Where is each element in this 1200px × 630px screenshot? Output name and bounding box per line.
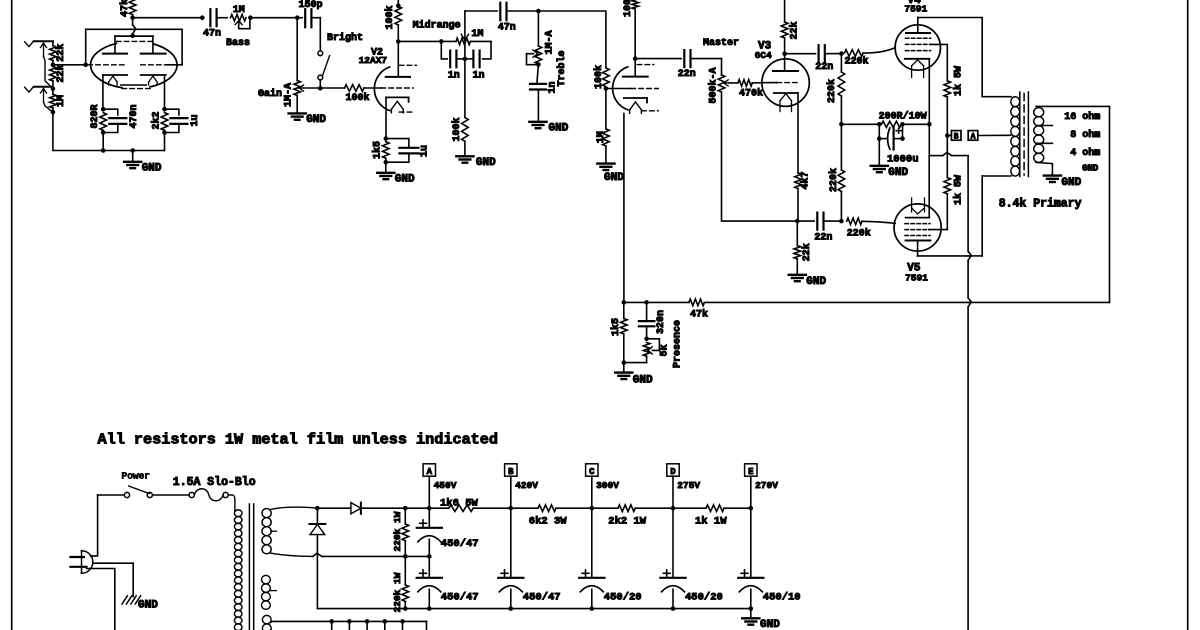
svg-text:Master: Master	[703, 38, 739, 49]
svg-text:47k: 47k	[119, 0, 131, 17]
capacitor 1u (V2)	[386, 139, 409, 148]
wire: supply line to power section	[967, 156, 969, 252]
tube V2b (driver)	[613, 67, 628, 110]
svg-text:22k: 22k	[55, 64, 67, 82]
pot 1M-A Treble	[537, 11, 539, 46]
svg-text:1k 5W: 1k 5W	[952, 66, 964, 96]
svg-text:47k: 47k	[690, 309, 708, 321]
resistor 22k (driver tail)	[796, 221, 798, 246]
svg-text:7591: 7591	[904, 4, 927, 15]
tube V1 grid dashes	[88, 64, 127, 66]
svg-text:220k: 220k	[847, 227, 871, 239]
diode D1 (HV rectifier)	[315, 506, 320, 511]
capacitor 47n (coupling)	[209, 9, 211, 26]
svg-text:22n: 22n	[814, 233, 832, 244]
left sheet border	[11, 0, 13, 630]
tube V2 cathode	[386, 96, 409, 98]
right sheet border	[1187, 0, 1189, 630]
capacitor 450/20	[591, 508, 593, 578]
svg-text:6k2 3W: 6k2 3W	[529, 515, 568, 527]
wire: feedback line	[624, 301, 689, 303]
svg-text:220k: 220k	[845, 56, 869, 68]
svg-text:47n: 47n	[498, 23, 516, 34]
tube V4 plate	[917, 18, 919, 34]
resistor 100k (driver plate, cut at top)	[632, 0, 639, 9]
svg-text:450/20: 450/20	[685, 592, 723, 604]
svg-text:22k: 22k	[789, 21, 801, 39]
resistor 4k7	[795, 173, 802, 189]
ground GND (V1 cathode)	[130, 148, 135, 153]
switch Bright	[319, 18, 321, 51]
svg-text:1k5: 1k5	[371, 141, 383, 159]
tube V5 grids	[905, 223, 930, 225]
input jack J2	[25, 87, 34, 92]
input jack J1	[25, 42, 34, 47]
svg-text:All resistors 1W metal film un: All resistors 1W metal film unless indic…	[98, 431, 499, 449]
svg-text:1M-A: 1M-A	[283, 83, 294, 107]
svg-text:1n: 1n	[473, 70, 485, 81]
svg-text:GND: GND	[142, 162, 162, 174]
node A box	[423, 464, 435, 476]
svg-text:270V: 270V	[755, 480, 778, 491]
node C box	[586, 464, 598, 476]
wire: V3 cathode lead	[797, 93, 799, 173]
resistor 22k (input lower)	[50, 66, 57, 81]
tube V4 envelope	[895, 25, 940, 70]
resistor 1k5 (V2 cathode)	[384, 136, 389, 141]
resistor 1k5 (presence leg)	[623, 302, 625, 318]
node D box	[667, 464, 679, 476]
resistor 820R	[101, 107, 106, 112]
resistor 100k (V2 grid stopper)	[320, 87, 344, 89]
svg-text:220k: 220k	[826, 79, 838, 103]
wire: V3 plate to 22n	[785, 53, 816, 55]
transformer PT core	[248, 504, 250, 630]
svg-text:100k: 100k	[384, 5, 396, 29]
svg-text:12AX7: 12AX7	[359, 55, 388, 66]
svg-text:A: A	[427, 467, 433, 477]
capacitor 450/20	[672, 508, 674, 578]
tube V2 plate	[397, 41, 399, 77]
svg-text:GND: GND	[633, 375, 653, 387]
wire: master pot bottom	[722, 92, 798, 221]
wire: HV top to rectifier	[271, 507, 318, 509]
svg-text:GND: GND	[306, 114, 326, 126]
transformer PT HV secondary	[262, 509, 271, 518]
svg-text:1k 1W: 1k 1W	[695, 515, 727, 527]
tube V2 grid dashes	[381, 87, 413, 89]
capacitor 1n (midrange right)	[483, 41, 491, 59]
tube V5 envelope	[894, 204, 941, 251]
svg-text:450/10: 450/10	[763, 592, 801, 604]
resistor 470k	[729, 82, 739, 84]
resistor 220k 1W (bleeder upper)	[403, 506, 408, 511]
capacitor 450/47 (A upper)	[428, 508, 430, 528]
svg-text:GND: GND	[604, 172, 624, 184]
svg-text:GND: GND	[476, 157, 496, 169]
diode D2 (doubler)	[316, 508, 318, 524]
wire: input ground return	[53, 112, 165, 150]
node: heater tap	[347, 619, 352, 624]
tube V3 envelope	[762, 59, 809, 106]
wire: grid to V1	[53, 64, 86, 66]
capacitor 22n (V4 grid)	[817, 45, 819, 62]
resistor 1M (input)	[50, 94, 57, 108]
tube V3 grid	[763, 82, 777, 84]
resistor 47k (feedback)	[689, 299, 705, 306]
ground GND (treble)	[529, 121, 546, 123]
wire: screen supply down	[946, 136, 948, 178]
ground GND (secondary)	[1044, 174, 1061, 176]
wire: B+ rail	[405, 507, 449, 509]
wire: V4 cathode to bias node	[928, 59, 930, 125]
ground GND (supply)	[750, 609, 752, 618]
svg-text:22n: 22n	[815, 62, 833, 73]
transformer PT bias winding	[262, 575, 271, 584]
wire: V5 cathode up	[928, 156, 930, 218]
resistor 1k 5W (V5 screen)	[944, 178, 951, 194]
svg-text:450/20: 450/20	[604, 592, 642, 604]
transformer PT primary	[234, 510, 242, 517]
wire: driver plate out	[635, 58, 681, 60]
svg-text:8.4k Primary: 8.4k Primary	[999, 198, 1082, 211]
svg-text:D: D	[670, 467, 676, 477]
node A	[968, 131, 978, 141]
svg-text:Power: Power	[122, 471, 151, 482]
wire: V1 cathode leads	[102, 75, 104, 109]
ground GND (bias)	[878, 139, 880, 166]
wire: 47n tap through midrange pot	[464, 11, 466, 59]
svg-text:B: B	[954, 133, 959, 142]
svg-text:A: A	[971, 133, 976, 142]
wire: supply ground rail	[317, 608, 750, 610]
resistor 220k (V4 grid)	[845, 50, 864, 57]
svg-text:GND: GND	[1082, 164, 1099, 174]
svg-text:GND: GND	[760, 619, 780, 630]
pot 5k Presence	[643, 343, 650, 357]
svg-text:2k2 1W: 2k2 1W	[608, 515, 647, 527]
wire: feedback from 16 ohm tap	[1109, 106, 1111, 302]
svg-text:420V: 420V	[515, 480, 538, 491]
svg-text:6C4: 6C4	[755, 50, 772, 61]
svg-text:Presence: Presence	[672, 320, 683, 368]
tube V2 (12AX7 half)	[374, 67, 389, 111]
svg-text:1M: 1M	[471, 29, 483, 40]
ground GND (midrange)	[456, 155, 473, 157]
wire: treble to driver grid	[538, 11, 606, 68]
wire: plug safety to bottom	[87, 569, 115, 630]
svg-text:Gain: Gain	[258, 88, 282, 100]
tube V1 cathodes	[103, 74, 127, 76]
wire: V1 grid loop	[86, 29, 182, 65]
svg-text:GND: GND	[888, 167, 908, 179]
capacitor 1000u	[878, 124, 880, 138]
node: heater tap	[383, 619, 388, 624]
svg-text:16 ohm: 16 ohm	[1064, 111, 1100, 123]
svg-text:E: E	[748, 467, 754, 477]
svg-text:100k: 100k	[346, 92, 370, 104]
ground GND (tail)	[789, 274, 806, 276]
wire: middle rail	[405, 555, 429, 557]
svg-text:7591: 7591	[905, 272, 928, 283]
node B	[951, 131, 961, 141]
wire: 47k lead with hop	[132, 18, 134, 25]
svg-text:22k: 22k	[55, 44, 67, 62]
transformer OT secondary	[1034, 108, 1044, 117]
svg-text:220k 1W: 220k 1W	[392, 511, 403, 551]
wire: driver cathode to presence	[623, 113, 625, 302]
ground GND (Gain)	[289, 112, 306, 114]
AC plug	[81, 551, 83, 574]
svg-text:1000u: 1000u	[887, 153, 919, 165]
svg-text:1k 5W: 1k 5W	[952, 175, 964, 205]
wire: 16 ohm tap	[1036, 105, 1110, 107]
resistor 220k (V5 grid leak)	[840, 124, 842, 170]
node: heater tap	[329, 619, 334, 624]
resistor 220k (V5 grid)	[847, 218, 862, 225]
resistor 1M (driver grid lower)	[605, 89, 607, 129]
svg-text:820R: 820R	[90, 104, 101, 128]
svg-text:320n: 320n	[656, 310, 667, 334]
capacitor 1n (midrange left)	[441, 41, 447, 59]
svg-text:2k2: 2k2	[150, 111, 162, 129]
wire: HV bottom lead	[271, 553, 313, 556]
ground GND (driver grid)	[597, 162, 614, 164]
wire: 8 ohm tap	[1037, 125, 1053, 127]
svg-text:1n: 1n	[448, 70, 460, 81]
wire: 4 ohm tap	[1037, 142, 1053, 144]
capacitor 450/47	[510, 508, 512, 578]
transformer OT core	[1019, 92, 1021, 177]
node E box	[745, 464, 757, 476]
svg-text:C: C	[589, 467, 595, 477]
svg-text:1M-A: 1M-A	[545, 30, 556, 54]
capacitor 47n (treble)	[465, 10, 497, 12]
wire: heater rail	[271, 621, 274, 622]
capacitor 22n (to master)	[683, 50, 685, 67]
svg-text:1M: 1M	[596, 131, 607, 143]
resistor 22k (input upper)	[52, 41, 54, 45]
svg-text:200R/10W: 200R/10W	[879, 111, 927, 123]
tube V1 envelope	[150, 44, 177, 87]
svg-text:220k: 220k	[828, 168, 840, 192]
wire: V5 plate to OT	[918, 255, 969, 257]
svg-text:GND: GND	[1061, 177, 1081, 189]
svg-text:GND: GND	[138, 600, 158, 612]
resistor 220k 1W (bleeder lower)	[404, 556, 406, 584]
tube V3 plate	[784, 54, 786, 71]
svg-text:100k: 100k	[622, 0, 634, 17]
svg-text:1k5: 1k5	[610, 318, 622, 336]
ground GND (presence)	[623, 363, 625, 373]
svg-text:4 ohm: 4 ohm	[1070, 147, 1100, 159]
wire: bias node to supply line	[928, 124, 930, 155]
resistor 100k (driver grid upper)	[603, 68, 610, 87]
svg-text:1u: 1u	[190, 114, 201, 126]
svg-text:22k: 22k	[801, 243, 813, 261]
resistor 22k (V3 plate)	[784, 0, 786, 22]
capacitor 320n	[646, 302, 648, 321]
svg-text:GND: GND	[549, 123, 569, 135]
capacitor 1n (treble)	[537, 64, 539, 84]
wire: V4 plate to OT	[918, 18, 1011, 97]
svg-text:Bright: Bright	[327, 32, 363, 44]
svg-text:B: B	[508, 467, 514, 477]
tube V5 plate	[906, 240, 931, 242]
tube V5 heater/cathode (mirrored)	[911, 198, 913, 212]
capacitor 1u (V1)	[165, 109, 179, 115]
svg-text:1u: 1u	[419, 145, 430, 157]
wire: grid leaks to bias node	[841, 123, 879, 125]
svg-text:8 ohm: 8 ohm	[1070, 129, 1100, 141]
svg-text:1M: 1M	[56, 95, 67, 107]
ground chassis (mains)	[122, 596, 127, 604]
transformer PT heater winding (cut)	[262, 615, 271, 624]
svg-text:100k: 100k	[593, 65, 605, 89]
resistor 220k (V4 grid leak)	[840, 54, 842, 72]
tube V3 cathode	[774, 92, 798, 94]
svg-text:4k7: 4k7	[800, 171, 812, 189]
wire: V1 plate to 47n	[133, 17, 203, 19]
svg-text:1M: 1M	[233, 5, 245, 16]
svg-text:220k 1W: 220k 1W	[392, 572, 403, 612]
svg-text:100k: 100k	[451, 117, 463, 141]
svg-text:1.5A Slo-Blo: 1.5A Slo-Blo	[173, 476, 256, 489]
svg-text:450/47: 450/47	[441, 538, 479, 550]
capacitor 450/10	[750, 508, 752, 578]
node: grid junction	[51, 63, 56, 68]
wire: bass to gain node	[250, 17, 297, 19]
node B box	[505, 464, 517, 476]
tube V1 plate structure	[115, 35, 153, 37]
resistor 1k 5W (V4 screen)	[944, 81, 951, 97]
transformer OT primary	[1011, 97, 1020, 107]
svg-text:GND: GND	[395, 173, 415, 185]
svg-text:GND: GND	[806, 276, 826, 288]
svg-text:Treble: Treble	[556, 50, 568, 86]
svg-text:470k: 470k	[739, 88, 763, 100]
pot 1M Bass	[231, 14, 247, 21]
svg-text:450/47: 450/47	[523, 592, 561, 604]
svg-text:Bass: Bass	[226, 38, 250, 49]
tube V4 cathode	[905, 58, 930, 60]
wire: V2 plate out	[398, 40, 441, 42]
wire: secondary ground tap	[1036, 162, 1052, 175]
svg-text:5k: 5k	[659, 344, 671, 356]
wire: plug hot to switch	[91, 495, 98, 556]
node: heater tap	[365, 619, 370, 624]
svg-text:450V: 450V	[434, 480, 457, 491]
svg-text:470n: 470n	[129, 104, 140, 128]
wire: fuse to transformer	[228, 495, 235, 511]
svg-text:275V: 275V	[677, 480, 700, 491]
wire: V4 screen lead	[931, 44, 948, 80]
capacitor 450/47 (A lower)	[428, 556, 430, 577]
tube V4 grids	[906, 37, 931, 39]
svg-text:1n: 1n	[548, 81, 559, 93]
node: heater tap	[400, 619, 405, 624]
capacitor 470n	[103, 109, 118, 115]
resistor 47k (V1 plate)	[129, 0, 136, 15]
svg-text:22n: 22n	[678, 69, 696, 80]
capacitor 22n (V5 grid)	[797, 220, 814, 222]
ground GND (V2 cathode)	[377, 172, 394, 174]
resistor 100k (V2 plate)	[396, 4, 401, 9]
svg-text:300V: 300V	[596, 480, 619, 491]
resistor 2k2	[162, 107, 167, 112]
svg-text:47n: 47n	[203, 29, 221, 40]
svg-text:500k-A: 500k-A	[707, 67, 719, 103]
svg-text:450/47: 450/47	[441, 592, 479, 604]
svg-text:Midrange: Midrange	[413, 19, 461, 31]
resistor 100k (midrange)	[464, 59, 466, 118]
pot 1M-A Gain	[296, 18, 298, 81]
wire: plug neutral	[93, 563, 133, 596]
